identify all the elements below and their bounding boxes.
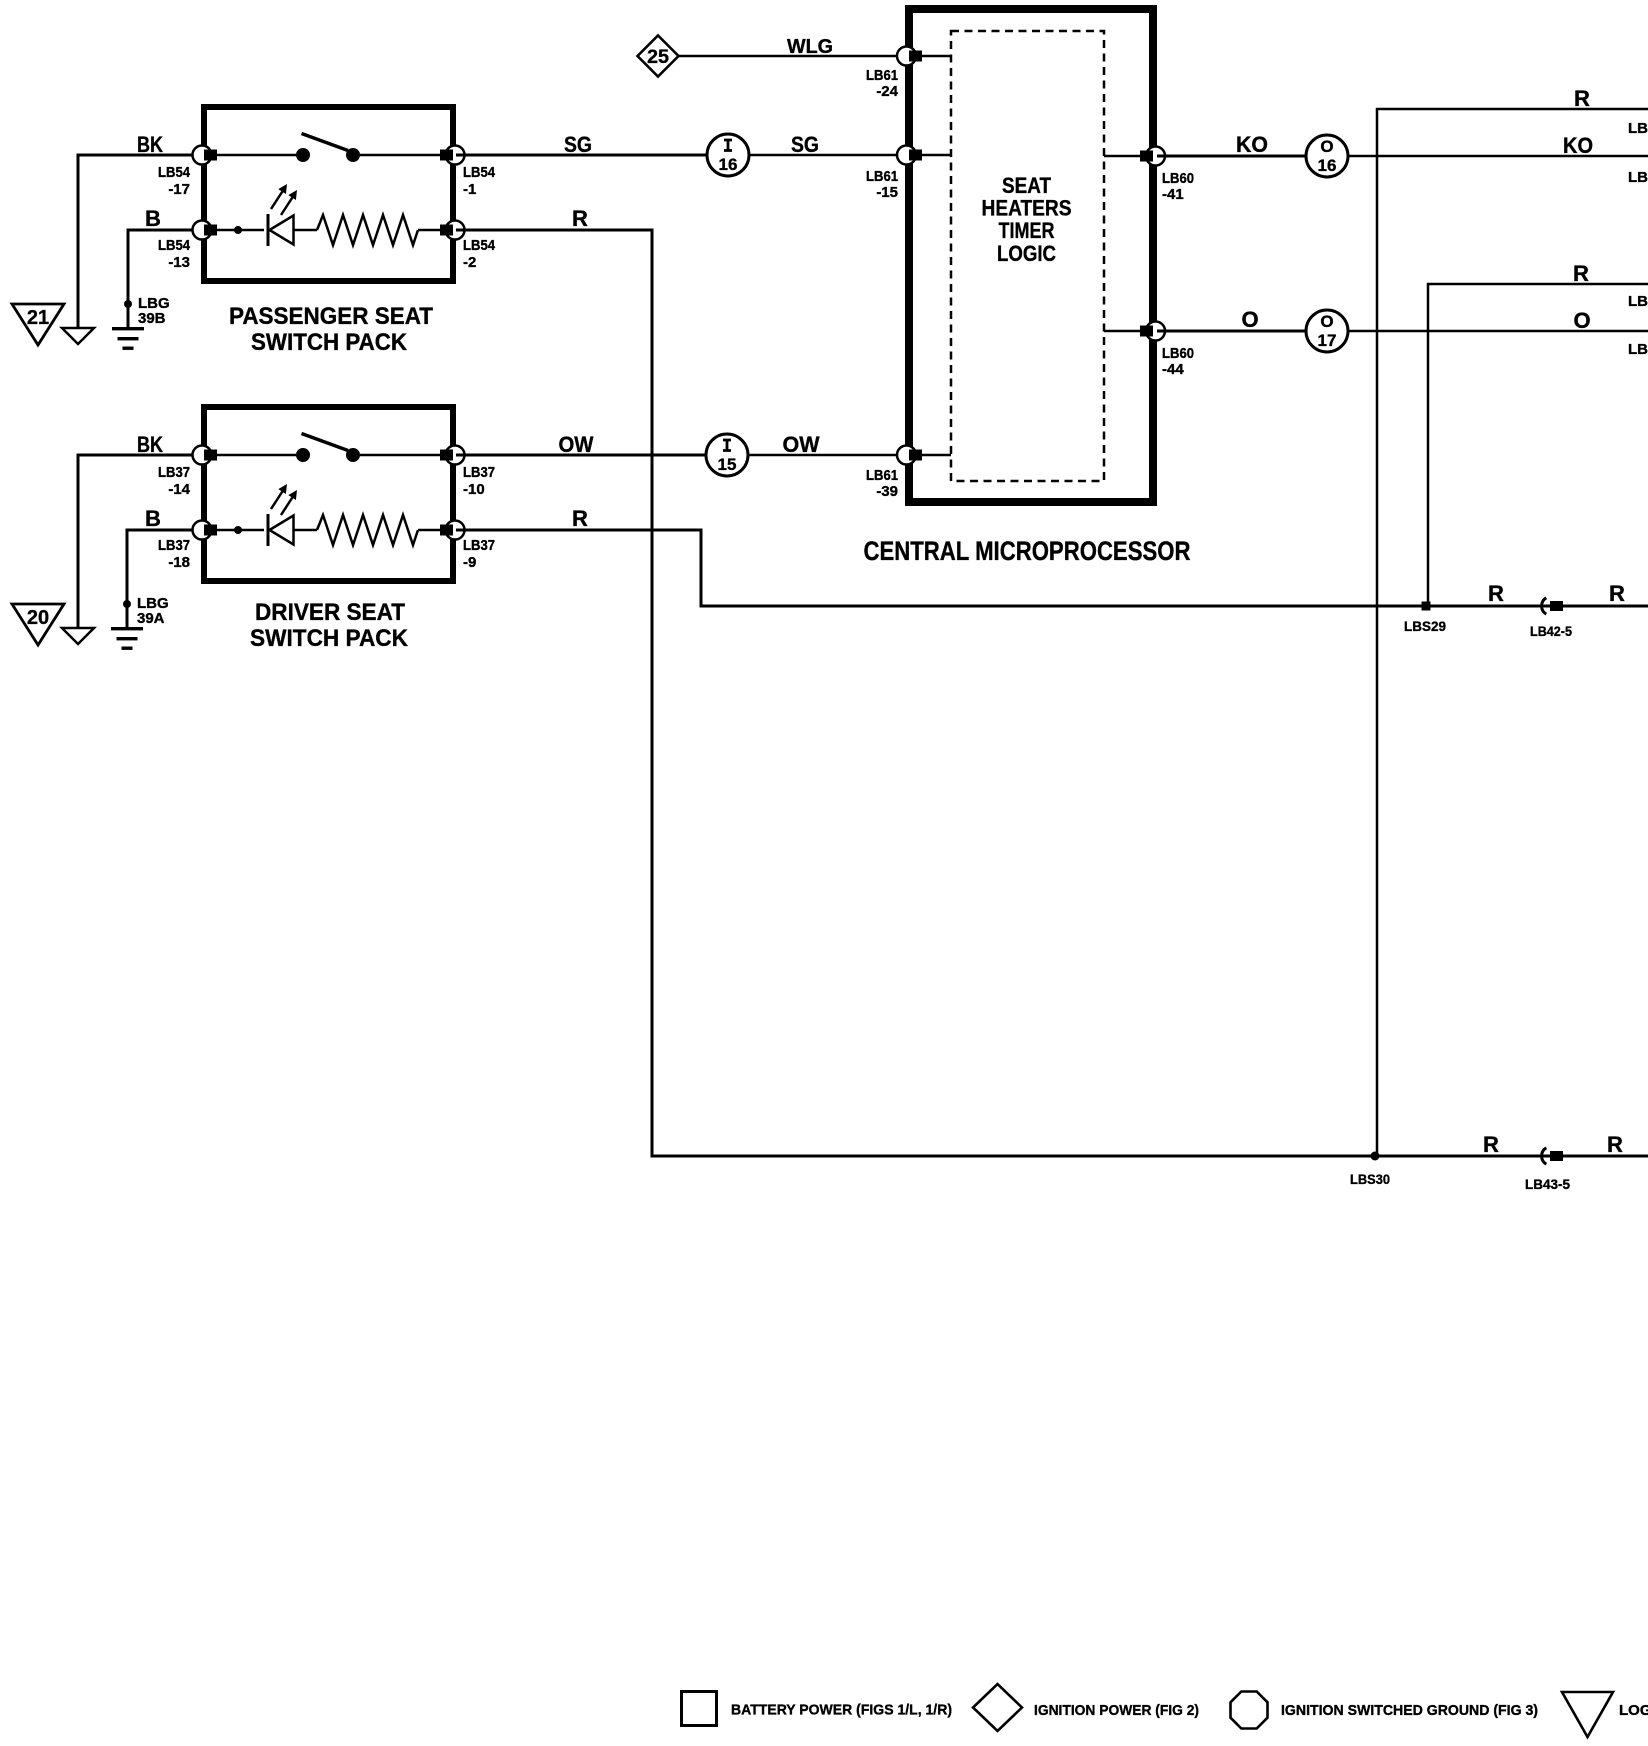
svg-text:BK: BK	[137, 432, 163, 457]
ground (chassis, open triangle, driver)	[62, 628, 94, 644]
svg-text:39A: 39A	[137, 610, 165, 627]
wire B (ground to pack, driver)	[127, 530, 201, 627]
wire R passenger (to splice LBS30)	[456, 230, 1648, 1156]
svg-text:BATTERY POWER (FIGS 1/L, 1/R): BATTERY POWER (FIGS 1/L, 1/R)	[731, 1702, 952, 1719]
node R label (LB42-5 right)	[1609, 581, 1625, 606]
svg-text:OW: OW	[559, 432, 594, 457]
pin LB54-17 terminal	[158, 146, 217, 199]
wire SG connector to micro	[749, 154, 905, 157]
svg-text:DRIVER SEAT: DRIVER SEAT	[255, 599, 405, 626]
wire O micro to connector	[1157, 330, 1306, 333]
node LBS29 splice	[1404, 602, 1446, 635]
svg-text:SWITCH PACK: SWITCH PACK	[250, 625, 409, 652]
node B label	[145, 206, 161, 231]
wire KO connector to edge	[1348, 155, 1648, 158]
svg-text:-14: -14	[168, 481, 190, 498]
node R label (LBS30 right)	[1483, 1132, 1499, 1157]
svg-text:LB54: LB54	[463, 164, 496, 181]
svg-text:CENTRAL MICROPROCESSOR: CENTRAL MICROPROCESSOR	[864, 536, 1191, 566]
svg-text:R: R	[572, 506, 588, 531]
node OW label 2	[783, 432, 820, 457]
svg-text:16: 16	[1318, 156, 1337, 175]
node SG label 2	[791, 132, 819, 157]
node B label (driver)	[145, 506, 161, 531]
svg-text:OW: OW	[783, 432, 820, 457]
connector I-16	[707, 134, 749, 176]
wire R driver (to splice LBS29)	[456, 530, 1648, 606]
svg-text:LB54: LB54	[463, 237, 496, 254]
legend battery power text	[731, 1702, 952, 1719]
svg-text:LB60: LB60	[1162, 345, 1194, 362]
svg-text:TIMER: TIMER	[999, 218, 1055, 243]
svg-text:-1: -1	[463, 181, 476, 198]
svg-text:-39: -39	[876, 483, 898, 500]
node R label (second)	[1573, 261, 1589, 286]
pin LB37-18 terminal	[158, 521, 217, 572]
svg-text:O: O	[1241, 307, 1258, 332]
legend ignition switched ground text	[1281, 1702, 1538, 1719]
svg-text:LBS30: LBS30	[1350, 1171, 1390, 1187]
pin LB54-13 terminal	[158, 221, 217, 272]
wire LED to resistor (driver)	[294, 529, 318, 532]
svg-text:R: R	[1609, 581, 1625, 606]
node LB edge label 1	[1628, 120, 1648, 137]
svg-text:LB37: LB37	[158, 537, 190, 554]
wire BK (ground to pack, driver)	[78, 455, 201, 627]
connector LB43-5 inline	[1525, 1148, 1570, 1192]
passenger seat switch pack box	[204, 107, 453, 281]
wire BK (ground to pack)	[78, 155, 201, 327]
svg-text:-41: -41	[1162, 186, 1184, 203]
node KO label	[1236, 132, 1268, 157]
svg-text:WLG: WLG	[787, 36, 833, 58]
node LB edge label 3	[1628, 293, 1648, 310]
node 20 (ground reference triangle)	[12, 604, 64, 645]
wire LED to resistor	[294, 229, 318, 232]
connector I-15	[706, 434, 748, 476]
svg-text:SG: SG	[564, 132, 592, 157]
node LBS30 splice	[1350, 1152, 1390, 1188]
svg-text:R: R	[572, 206, 588, 231]
node BK label (driver)	[137, 432, 163, 457]
svg-text:LB61: LB61	[866, 467, 898, 484]
wire resistor to pin (driver)	[418, 529, 440, 532]
svg-text:25: 25	[647, 47, 669, 68]
svg-text:-24: -24	[876, 83, 898, 100]
svg-text:KO: KO	[1563, 133, 1593, 158]
svg-text:LB: LB	[1628, 169, 1648, 186]
svg-text:-44: -44	[1162, 361, 1184, 378]
pin LB61-39 terminal	[866, 446, 951, 501]
svg-text:21: 21	[27, 307, 49, 329]
pin LB54-1 terminal	[440, 146, 496, 199]
legend logic ground text (clipped)	[1619, 1702, 1648, 1719]
svg-text:IGNITION POWER (FIG 2): IGNITION POWER (FIG 2)	[1034, 1702, 1199, 1719]
connector LB42-5 inline	[1530, 598, 1572, 639]
wire B (ground to pack)	[128, 230, 201, 327]
svg-text:R: R	[1607, 1132, 1623, 1157]
legend logic ground symbol (triangle)	[1562, 1692, 1613, 1737]
svg-text:SWITCH PACK: SWITCH PACK	[251, 329, 408, 356]
wire R top (edge to splice LBS30)	[1377, 109, 1648, 1156]
svg-text:LOGIC: LOGIC	[997, 241, 1056, 266]
node BK label	[137, 132, 163, 157]
svg-text:-18: -18	[168, 554, 190, 571]
node LB edge label 4	[1628, 341, 1648, 358]
legend ignition switched ground symbol (octagon)	[1231, 1692, 1268, 1729]
wire OW connector to micro	[748, 454, 905, 457]
ground LBG 39B bars	[112, 327, 144, 350]
svg-text:-10: -10	[463, 481, 485, 498]
svg-text:LB: LB	[1628, 293, 1648, 310]
svg-text:R: R	[1574, 86, 1590, 111]
connector O-16	[1306, 135, 1348, 177]
wire WLG diamond to micro	[679, 55, 906, 58]
pin LB60-44 terminal	[1104, 322, 1194, 379]
node R label (passenger)	[572, 206, 588, 231]
node R label (LBS29 right)	[1488, 581, 1504, 606]
svg-text:O: O	[1320, 137, 1333, 156]
svg-text:LB: LB	[1628, 120, 1648, 137]
resistor R2	[317, 515, 418, 545]
pin LB61-15 terminal	[866, 146, 951, 202]
node R label (LB43-5 right)	[1607, 1132, 1623, 1157]
svg-text:LB54: LB54	[158, 237, 191, 254]
svg-text:LB61: LB61	[866, 67, 898, 84]
node 21 (ground reference triangle)	[12, 304, 64, 345]
wire pin to LED (driver)	[217, 529, 264, 532]
node junction dot (driver)	[234, 526, 242, 534]
wire O connector to edge	[1348, 330, 1648, 333]
ground LBG 39A bars	[111, 627, 143, 650]
node KO label 2	[1563, 133, 1593, 158]
svg-text:LB61: LB61	[866, 168, 898, 185]
svg-text:LB54: LB54	[158, 164, 191, 181]
wire OW pack to connector	[456, 454, 706, 457]
svg-text:LB37: LB37	[463, 464, 495, 481]
svg-text:PASSENGER SEAT: PASSENGER SEAT	[229, 303, 433, 330]
svg-text:O: O	[1320, 312, 1333, 331]
svg-text:BK: BK	[137, 132, 163, 157]
wire KO micro to connector	[1157, 155, 1306, 158]
node LBG 39B junction	[124, 295, 170, 327]
pin LB37-9 terminal	[440, 521, 495, 572]
svg-text:LB: LB	[1628, 341, 1648, 358]
svg-text:LB37: LB37	[463, 537, 495, 554]
svg-text:LB37: LB37	[158, 464, 190, 481]
label DRIVER SEAT SWITCH PACK	[250, 599, 409, 652]
wire pin to LED	[217, 229, 264, 232]
svg-text:SG: SG	[791, 132, 819, 157]
svg-text:B: B	[145, 506, 161, 531]
legend battery power symbol	[682, 1692, 717, 1726]
wire R second (edge to splice LBS29)	[1428, 284, 1648, 606]
svg-text:IGNITION SWITCHED GROUND (FIG: IGNITION SWITCHED GROUND (FIG 3)	[1281, 1702, 1538, 1719]
svg-text:LOG: LOG	[1619, 1702, 1648, 1719]
pin LB61-24 terminal	[866, 47, 951, 101]
svg-text:R: R	[1488, 581, 1504, 606]
svg-text:-15: -15	[876, 184, 898, 201]
node R label (driver)	[572, 506, 588, 531]
svg-text:HEATERS: HEATERS	[982, 196, 1072, 221]
LED D1 (indicator)	[268, 184, 297, 246]
pin LB37-14 terminal	[158, 446, 217, 499]
node LBG 39A junction	[123, 595, 169, 627]
svg-text:O: O	[1573, 308, 1590, 333]
wire switch to pin (driver)	[360, 454, 440, 457]
node LB edge label 2	[1628, 169, 1648, 186]
connector O-17	[1306, 310, 1348, 352]
svg-text:-2: -2	[463, 254, 476, 271]
label CENTRAL MICROPROCESSOR	[864, 536, 1191, 566]
node 25 (ignition power diamond)	[638, 36, 679, 77]
node SG label	[564, 132, 592, 157]
node junction dot	[234, 226, 242, 234]
wire SG pack to connector	[456, 154, 707, 157]
svg-text:-13: -13	[168, 254, 190, 271]
svg-text:20: 20	[27, 607, 49, 629]
svg-text:16: 16	[719, 155, 738, 174]
node WLG label	[787, 36, 833, 58]
wire to switch (driver)	[217, 454, 296, 457]
node OW label	[559, 432, 594, 457]
node O label	[1241, 307, 1258, 332]
central microprocessor box U1	[909, 9, 1153, 502]
svg-text:-9: -9	[463, 554, 476, 571]
svg-text:SEAT: SEAT	[1002, 173, 1051, 198]
node O label 2	[1573, 308, 1590, 333]
ground (chassis, open triangle)	[62, 328, 94, 344]
wire to switch	[217, 154, 296, 157]
svg-text:15: 15	[718, 455, 737, 474]
svg-text:KO: KO	[1236, 132, 1268, 157]
label PASSENGER SEAT SWITCH PACK	[229, 303, 433, 356]
pin LB54-2 terminal	[440, 221, 496, 272]
wire resistor to pin	[418, 229, 440, 232]
svg-text:LB43-5: LB43-5	[1525, 1176, 1570, 1192]
svg-text:R: R	[1573, 261, 1589, 286]
svg-text:R: R	[1483, 1132, 1499, 1157]
resistor R1	[317, 215, 418, 245]
svg-text:LB60: LB60	[1162, 170, 1194, 187]
node R label (top)	[1574, 86, 1590, 111]
legend ignition power text	[1034, 1702, 1199, 1719]
wire switch to pin	[360, 154, 440, 157]
svg-text:B: B	[145, 206, 161, 231]
svg-text:17: 17	[1318, 331, 1337, 350]
driver seat switch pack box	[204, 407, 453, 581]
LED D2 (indicator, driver)	[268, 484, 297, 546]
legend ignition power symbol (diamond)	[973, 1684, 1022, 1731]
seat heaters timer logic dashed block	[951, 31, 1104, 481]
svg-text:LB42-5: LB42-5	[1530, 623, 1572, 639]
pin LB37-10 terminal	[440, 446, 495, 499]
pin LB60-41 terminal	[1104, 147, 1194, 204]
svg-text:LBS29: LBS29	[1404, 618, 1446, 634]
svg-text:-17: -17	[168, 181, 190, 198]
switch S1 (seat heater switch)	[296, 134, 360, 163]
svg-text:39B: 39B	[138, 310, 166, 327]
switch S2 (seat heater switch, driver)	[296, 434, 360, 463]
